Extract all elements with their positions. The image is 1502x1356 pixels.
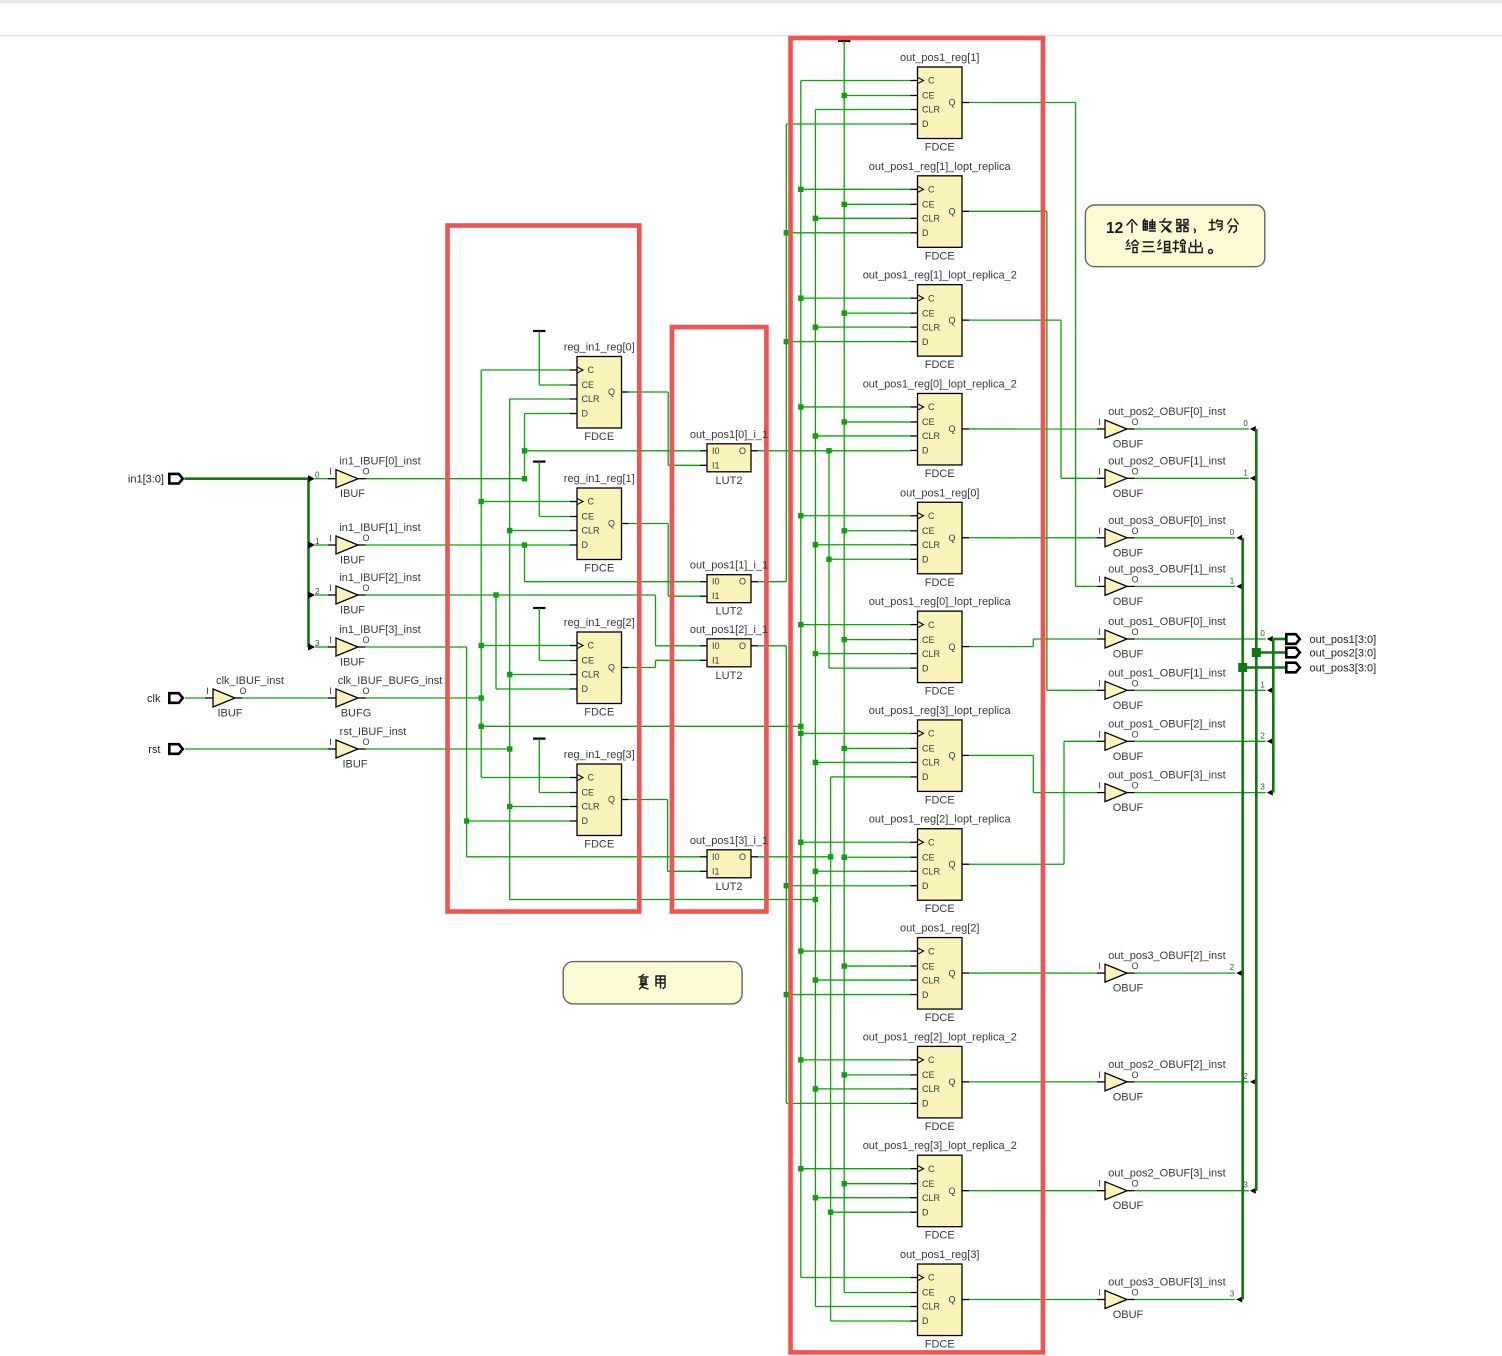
svg-text:out_pos1[3]_i_1: out_pos1[3]_i_1 — [690, 835, 768, 847]
svg-text:FDCE: FDCE — [925, 468, 955, 480]
svg-text:OBUF: OBUF — [1113, 983, 1144, 995]
svg-text:CLR: CLR — [922, 431, 941, 441]
svg-text:Q: Q — [608, 519, 615, 529]
svg-text:C: C — [928, 511, 935, 521]
svg-text:clk: clk — [147, 693, 161, 705]
svg-text:C: C — [928, 402, 935, 412]
svg-text:D: D — [922, 1207, 929, 1217]
svg-text:D: D — [582, 540, 589, 550]
svg-text:I: I — [329, 635, 332, 645]
svg-text:BUFG: BUFG — [341, 708, 372, 720]
svg-text:out_pos2[3:0]: out_pos2[3:0] — [1310, 648, 1377, 660]
svg-text:in1_IBUF[3]_inst: in1_IBUF[3]_inst — [339, 624, 420, 636]
svg-text:CLR: CLR — [582, 802, 601, 812]
svg-text:rst_IBUF_inst: rst_IBUF_inst — [340, 726, 407, 738]
svg-text:I: I — [329, 686, 332, 696]
svg-text:0: 0 — [315, 471, 320, 480]
svg-text:CLR: CLR — [922, 1193, 941, 1203]
svg-text:O: O — [362, 583, 369, 593]
svg-text:C: C — [928, 185, 935, 195]
svg-text:out_pos1_reg[0]_lopt_replica: out_pos1_reg[0]_lopt_replica — [869, 596, 1012, 608]
svg-text:OBUF: OBUF — [1113, 1309, 1144, 1321]
svg-text:reg_in1_reg[0]: reg_in1_reg[0] — [564, 342, 635, 354]
svg-text:2: 2 — [1230, 963, 1235, 972]
svg-text:out_pos1_reg[2]_lopt_replica: out_pos1_reg[2]_lopt_replica — [869, 814, 1012, 826]
svg-text:out_pos1_reg[3]: out_pos1_reg[3] — [900, 1249, 980, 1261]
svg-text:I1: I1 — [712, 460, 720, 470]
svg-text:CLR: CLR — [922, 322, 941, 332]
svg-text:out_pos1_OBUF[3]_inst: out_pos1_OBUF[3]_inst — [1108, 770, 1225, 782]
svg-text:out_pos2_OBUF[3]_inst: out_pos2_OBUF[3]_inst — [1108, 1168, 1225, 1180]
svg-text:FDCE: FDCE — [925, 1339, 955, 1351]
svg-text:out_pos2_OBUF[0]_inst: out_pos2_OBUF[0]_inst — [1108, 406, 1225, 418]
svg-text:out_pos1_reg[1]_lopt_replica_2: out_pos1_reg[1]_lopt_replica_2 — [863, 270, 1017, 282]
svg-text:I1: I1 — [712, 866, 720, 876]
svg-text:out_pos1_reg[2]: out_pos1_reg[2] — [900, 923, 980, 935]
svg-text:out_pos1[0]_i_1: out_pos1[0]_i_1 — [690, 429, 768, 441]
svg-text:I: I — [1098, 627, 1101, 637]
svg-text:LUT2: LUT2 — [716, 881, 743, 893]
svg-text:OBUF: OBUF — [1113, 596, 1144, 608]
svg-text:Q: Q — [608, 795, 615, 805]
svg-text:FDCE: FDCE — [925, 686, 955, 698]
svg-text:out_pos1_reg[1]: out_pos1_reg[1] — [900, 52, 980, 64]
svg-text:O: O — [1131, 574, 1138, 584]
svg-text:C: C — [928, 1164, 935, 1174]
svg-text:Q: Q — [948, 207, 955, 217]
svg-text:Q: Q — [948, 751, 955, 761]
svg-text:out_pos3_OBUF[2]_inst: out_pos3_OBUF[2]_inst — [1108, 950, 1225, 962]
svg-text:in1_IBUF[2]_inst: in1_IBUF[2]_inst — [339, 572, 420, 584]
svg-text:D: D — [582, 684, 589, 694]
svg-text:C: C — [588, 641, 595, 651]
svg-text:3: 3 — [1243, 1181, 1248, 1190]
svg-text:Q: Q — [948, 859, 955, 869]
svg-text:Q: Q — [948, 533, 955, 543]
svg-text:O: O — [739, 641, 746, 651]
svg-text:O: O — [1131, 678, 1138, 688]
svg-text:FDCE: FDCE — [925, 794, 955, 806]
svg-text:out_pos3_OBUF[1]_inst: out_pos3_OBUF[1]_inst — [1108, 563, 1225, 575]
svg-text:CE: CE — [922, 91, 935, 101]
svg-text:out_pos2_OBUF[1]_inst: out_pos2_OBUF[1]_inst — [1108, 455, 1225, 467]
svg-text:O: O — [1131, 627, 1138, 637]
svg-text:I1: I1 — [712, 655, 720, 665]
svg-text:I: I — [1098, 961, 1101, 971]
svg-text:out_pos1_reg[1]_lopt_replica: out_pos1_reg[1]_lopt_replica — [869, 161, 1012, 173]
svg-text:OBUF: OBUF — [1113, 649, 1144, 661]
svg-text:0: 0 — [1230, 528, 1235, 537]
svg-text:I: I — [329, 533, 332, 543]
svg-text:IBUF: IBUF — [340, 605, 365, 617]
svg-text:I: I — [1098, 781, 1101, 791]
svg-text:O: O — [739, 852, 746, 862]
svg-text:D: D — [922, 337, 929, 347]
svg-text:O: O — [1131, 526, 1138, 536]
svg-text:Q: Q — [948, 968, 955, 978]
svg-text:CE: CE — [582, 380, 595, 390]
svg-text:C: C — [928, 1055, 935, 1065]
svg-text:out_pos3[3:0]: out_pos3[3:0] — [1310, 663, 1377, 675]
svg-text:FDCE: FDCE — [925, 250, 955, 262]
svg-text:I: I — [1098, 1179, 1101, 1189]
svg-text:IBUF: IBUF — [340, 555, 365, 567]
svg-text:O: O — [1131, 417, 1138, 427]
svg-text:reg_in1_reg[2]: reg_in1_reg[2] — [564, 617, 635, 629]
svg-text:1: 1 — [1260, 680, 1265, 689]
svg-text:out_pos1_reg[2]_lopt_replica_2: out_pos1_reg[2]_lopt_replica_2 — [863, 1031, 1017, 1043]
svg-text:FDCE: FDCE — [584, 707, 614, 719]
svg-text:12: 12 — [1106, 220, 1123, 237]
svg-text:out_pos1_reg[3]_lopt_replica: out_pos1_reg[3]_lopt_replica — [869, 705, 1012, 717]
svg-text:clk_IBUF_inst: clk_IBUF_inst — [216, 675, 284, 687]
svg-text:Q: Q — [948, 315, 955, 325]
svg-text:FDCE: FDCE — [925, 1230, 955, 1242]
svg-text:out_pos1_reg[3]_lopt_replica_2: out_pos1_reg[3]_lopt_replica_2 — [863, 1140, 1017, 1152]
svg-text:CLR: CLR — [922, 214, 941, 224]
svg-text:D: D — [922, 663, 929, 673]
svg-text:C: C — [588, 773, 595, 783]
svg-text:C: C — [928, 620, 935, 630]
svg-text:O: O — [1131, 729, 1138, 739]
svg-text:IBUF: IBUF — [340, 657, 365, 669]
svg-text:I0: I0 — [712, 446, 720, 456]
svg-text:LUT2: LUT2 — [716, 670, 743, 682]
svg-text:I: I — [1098, 417, 1101, 427]
svg-text:3: 3 — [315, 639, 320, 648]
svg-text:Q: Q — [948, 424, 955, 434]
svg-text:O: O — [1131, 1070, 1138, 1080]
svg-text:out_pos1_reg[0]: out_pos1_reg[0] — [900, 487, 980, 499]
svg-text:CLR: CLR — [922, 758, 941, 768]
svg-text:O: O — [739, 577, 746, 587]
svg-text:FDCE: FDCE — [925, 577, 955, 589]
svg-text:Q: Q — [948, 1077, 955, 1087]
svg-text:FDCE: FDCE — [925, 142, 955, 154]
svg-text:FDCE: FDCE — [584, 563, 614, 575]
svg-text:1: 1 — [1230, 576, 1235, 585]
svg-text:rst: rst — [148, 744, 160, 756]
svg-text:CLR: CLR — [922, 540, 941, 550]
svg-text:D: D — [922, 881, 929, 891]
svg-text:CE: CE — [922, 961, 935, 971]
svg-text:D: D — [922, 1316, 929, 1326]
svg-text:CLR: CLR — [582, 670, 601, 680]
svg-text:3: 3 — [1230, 1290, 1235, 1299]
svg-text:CE: CE — [922, 1179, 935, 1189]
svg-text:CE: CE — [922, 200, 935, 210]
svg-text:I: I — [1098, 1070, 1101, 1080]
svg-text:OBUF: OBUF — [1113, 700, 1144, 712]
svg-text:CLR: CLR — [922, 1302, 941, 1312]
svg-text:CE: CE — [582, 512, 595, 522]
svg-text:OBUF: OBUF — [1113, 547, 1144, 559]
svg-text:out_pos3_OBUF[3]_inst: out_pos3_OBUF[3]_inst — [1108, 1277, 1225, 1289]
svg-text:IBUF: IBUF — [217, 708, 242, 720]
svg-text:CLR: CLR — [582, 394, 601, 404]
svg-text:0: 0 — [1243, 419, 1248, 428]
svg-text:I: I — [1098, 678, 1101, 688]
svg-text:1: 1 — [315, 537, 320, 546]
svg-text:I: I — [206, 686, 209, 696]
svg-text:O: O — [1131, 781, 1138, 791]
svg-text:LUT2: LUT2 — [716, 606, 743, 618]
svg-text:0: 0 — [1260, 629, 1265, 638]
svg-text:C: C — [928, 293, 935, 303]
svg-text:O: O — [362, 635, 369, 645]
svg-text:LUT2: LUT2 — [716, 475, 743, 487]
svg-text:O: O — [1131, 961, 1138, 971]
svg-text:2: 2 — [1243, 1072, 1248, 1081]
svg-text:out_pos1_reg[0]_lopt_replica_2: out_pos1_reg[0]_lopt_replica_2 — [863, 378, 1017, 390]
svg-text:CLR: CLR — [922, 1084, 941, 1094]
svg-text:I: I — [329, 737, 332, 747]
svg-text:CE: CE — [922, 308, 935, 318]
svg-text:out_pos3_OBUF[0]_inst: out_pos3_OBUF[0]_inst — [1108, 515, 1225, 527]
svg-text:OBUF: OBUF — [1113, 439, 1144, 451]
svg-text:C: C — [928, 837, 935, 847]
svg-text:O: O — [362, 737, 369, 747]
svg-text:1: 1 — [1243, 468, 1248, 477]
svg-text:O: O — [1131, 466, 1138, 476]
svg-text:Q: Q — [608, 387, 615, 397]
svg-text:Q: Q — [948, 1186, 955, 1196]
svg-text:D: D — [582, 816, 589, 826]
svg-text:D: D — [582, 409, 589, 419]
svg-text:CE: CE — [922, 1288, 935, 1298]
svg-text:I1: I1 — [712, 591, 720, 601]
svg-text:C: C — [588, 365, 595, 375]
svg-text:FDCE: FDCE — [925, 903, 955, 915]
svg-text:I: I — [329, 467, 332, 477]
svg-text:FDCE: FDCE — [925, 1012, 955, 1024]
svg-text:OBUF: OBUF — [1113, 1091, 1144, 1103]
svg-text:CE: CE — [922, 1070, 935, 1080]
svg-text:CLR: CLR — [922, 105, 941, 115]
svg-text:O: O — [362, 686, 369, 696]
svg-text:reg_in1_reg[3]: reg_in1_reg[3] — [564, 749, 635, 761]
svg-text:O: O — [1131, 1288, 1138, 1298]
svg-text:D: D — [922, 772, 929, 782]
svg-text:D: D — [922, 990, 929, 1000]
svg-text:D: D — [922, 446, 929, 456]
svg-text:C: C — [928, 729, 935, 739]
svg-text:CLR: CLR — [922, 975, 941, 985]
svg-text:C: C — [928, 946, 935, 956]
svg-text:FDCE: FDCE — [925, 359, 955, 371]
svg-text:CE: CE — [922, 744, 935, 754]
svg-text:C: C — [928, 1273, 935, 1283]
svg-text:I: I — [1098, 526, 1101, 536]
svg-text:CE: CE — [922, 852, 935, 862]
svg-text:IBUF: IBUF — [342, 759, 367, 771]
svg-text:OBUF: OBUF — [1113, 1200, 1144, 1212]
svg-text:CE: CE — [582, 788, 595, 798]
svg-text:I: I — [1098, 466, 1101, 476]
svg-text:out_pos1[2]_i_1: out_pos1[2]_i_1 — [690, 624, 768, 636]
svg-text:I: I — [1098, 574, 1101, 584]
svg-text:CLR: CLR — [582, 526, 601, 536]
svg-text:out_pos2_OBUF[2]_inst: out_pos2_OBUF[2]_inst — [1108, 1059, 1225, 1071]
svg-text:2: 2 — [1260, 731, 1265, 740]
svg-text:FDCE: FDCE — [584, 431, 614, 443]
svg-text:in1[3:0]: in1[3:0] — [128, 474, 164, 486]
svg-text:O: O — [1131, 1179, 1138, 1189]
svg-text:D: D — [922, 554, 929, 564]
svg-text:CE: CE — [922, 635, 935, 645]
svg-text:out_pos1_OBUF[2]_inst: out_pos1_OBUF[2]_inst — [1108, 718, 1225, 730]
svg-text:CE: CE — [922, 526, 935, 536]
svg-text:CE: CE — [582, 656, 595, 666]
svg-text:CLR: CLR — [922, 866, 941, 876]
svg-text:I0: I0 — [712, 641, 720, 651]
svg-text:OBUF: OBUF — [1113, 751, 1144, 763]
svg-text:3: 3 — [1260, 783, 1265, 792]
svg-text:C: C — [928, 76, 935, 86]
svg-text:Q: Q — [948, 98, 955, 108]
svg-text:D: D — [922, 1099, 929, 1109]
svg-text:out_pos1[3:0]: out_pos1[3:0] — [1310, 634, 1377, 646]
svg-text:I: I — [329, 583, 332, 593]
svg-text:Q: Q — [608, 663, 615, 673]
svg-text:clk_IBUF_BUFG_inst: clk_IBUF_BUFG_inst — [338, 675, 443, 687]
svg-text:CLR: CLR — [922, 649, 941, 659]
svg-text:in1_IBUF[0]_inst: in1_IBUF[0]_inst — [339, 456, 420, 468]
svg-text:O: O — [362, 533, 369, 543]
svg-text:CE: CE — [922, 417, 935, 427]
svg-text:D: D — [922, 228, 929, 238]
svg-text:O: O — [239, 686, 246, 696]
svg-text:FDCE: FDCE — [584, 839, 614, 851]
svg-text:I0: I0 — [712, 852, 720, 862]
svg-text:C: C — [588, 497, 595, 507]
svg-text:in1_IBUF[1]_inst: in1_IBUF[1]_inst — [339, 522, 420, 534]
svg-text:I: I — [1098, 1288, 1101, 1298]
svg-text:out_pos1[1]_i_1: out_pos1[1]_i_1 — [690, 560, 768, 572]
svg-text:Q: Q — [948, 1295, 955, 1305]
svg-text:Q: Q — [948, 642, 955, 652]
svg-text:FDCE: FDCE — [925, 1121, 955, 1133]
svg-text:I0: I0 — [712, 577, 720, 587]
svg-text:IBUF: IBUF — [340, 488, 365, 500]
svg-text:OBUF: OBUF — [1113, 488, 1144, 500]
svg-text:I: I — [1098, 729, 1101, 739]
svg-text:reg_in1_reg[1]: reg_in1_reg[1] — [564, 473, 635, 485]
svg-text:out_pos1_OBUF[0]_inst: out_pos1_OBUF[0]_inst — [1108, 616, 1225, 628]
svg-text:OBUF: OBUF — [1113, 802, 1144, 814]
svg-text:D: D — [922, 119, 929, 129]
svg-text:O: O — [362, 467, 369, 477]
svg-text:O: O — [739, 446, 746, 456]
svg-text:2: 2 — [315, 587, 320, 596]
svg-text:out_pos1_OBUF[1]_inst: out_pos1_OBUF[1]_inst — [1108, 667, 1225, 679]
